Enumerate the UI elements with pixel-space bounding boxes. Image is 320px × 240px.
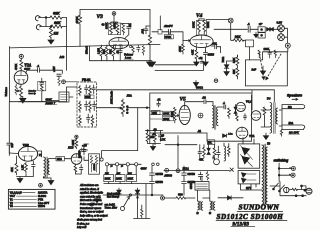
svg-text:pt: pt xyxy=(111,165,113,168)
junction dot xyxy=(177,144,179,146)
wires bridge feeds xyxy=(241,138,263,191)
resistor R50 beside box xyxy=(122,24,125,36)
grid arrow V4 xyxy=(187,40,190,42)
V5 box left edge xyxy=(149,93,151,144)
wire plug top xyxy=(302,186,307,190)
cap C25 2uF xyxy=(7,143,12,155)
cap C33 into box xyxy=(268,50,272,59)
diode D6b trem xyxy=(207,152,210,155)
wire V5 plate up xyxy=(185,102,204,106)
feedback wire vertical xyxy=(8,102,10,143)
wire lamps series xyxy=(280,24,282,34)
resistor R51 psu xyxy=(141,209,143,218)
filter cap C21 xyxy=(150,179,155,187)
svg-text:.01: .01 xyxy=(198,129,202,133)
wire leak xyxy=(182,41,184,45)
cap C17 .1 xyxy=(224,105,226,109)
switch box S1 xyxy=(59,92,69,102)
V4 cathode network wire xyxy=(196,47,205,51)
inter tube parts resistor xyxy=(236,115,238,121)
svg-text:T4: T4 xyxy=(267,96,271,100)
junction dot xyxy=(45,17,47,19)
heater pin 3 xyxy=(126,163,129,166)
choke box xyxy=(195,182,209,191)
resistor R38 cathode K1B xyxy=(74,164,77,174)
ground input xyxy=(48,39,54,45)
resistor R22 xyxy=(89,86,92,97)
AC motor cap circle xyxy=(284,187,289,192)
pin dots right xyxy=(152,163,155,166)
PT secondary xyxy=(266,147,268,205)
wire diodes to lamps xyxy=(273,28,280,31)
wire lamp down to 21K xyxy=(231,23,234,40)
wire OT left xyxy=(261,110,270,127)
cap C19 20/450 xyxy=(82,146,86,155)
footswitch logic box xyxy=(245,52,287,86)
input jack J2 xyxy=(36,25,41,30)
input jack J1 xyxy=(35,16,40,21)
resistor R36 680 xyxy=(176,197,185,200)
svg-text:470K: 470K xyxy=(14,64,18,70)
svg-text:Loop: Loop xyxy=(125,56,132,59)
svg-text:.02: .02 xyxy=(115,50,119,54)
resistor R20 tone xyxy=(41,85,44,102)
svg-text:find items): find items) xyxy=(107,195,119,198)
svg-text:4.5K: 4.5K xyxy=(192,50,195,55)
svg-text:Speakers: Speakers xyxy=(287,94,302,98)
resistor R21 xyxy=(79,86,82,97)
resistor R53 under rail xyxy=(142,46,144,55)
dashed pull line B xyxy=(267,54,281,79)
svg-text:help with a, or in output: help with a, or in output xyxy=(80,214,108,217)
wires top of R8-R10 xyxy=(102,45,121,47)
resistor box 10K xyxy=(152,110,161,114)
svg-text:.01: .01 xyxy=(157,98,161,102)
wire cap down xyxy=(8,145,10,153)
svg-text:6N4: 6N4 xyxy=(57,158,62,161)
resistor R26 xyxy=(91,115,94,126)
bias feed wire upper xyxy=(155,61,197,65)
rect diode A xyxy=(242,148,250,155)
svg-text:+.05: +.05 xyxy=(82,144,87,147)
cap C7 .1 xyxy=(38,68,40,72)
wire cap to T2 xyxy=(206,102,213,105)
speaker jack 1 xyxy=(282,105,305,109)
resistor R7 on right rail xyxy=(148,35,151,47)
pilot lamp L1 xyxy=(228,18,233,23)
svg-text:100K: 100K xyxy=(105,178,111,181)
diode D10 bias xyxy=(224,61,228,68)
AC plug xyxy=(306,188,312,194)
wire grid xyxy=(152,31,168,33)
resistor R28 xyxy=(228,108,231,118)
svg-text:RY1A: RY1A xyxy=(183,167,190,170)
heater pin 2 xyxy=(115,163,118,166)
bias diode B xyxy=(242,178,247,182)
tube V2B envelope xyxy=(18,146,37,161)
svg-text:35/40: 35/40 xyxy=(190,183,193,189)
power switch S3 xyxy=(274,183,285,191)
wire cap top xyxy=(121,23,129,25)
relay box K1 xyxy=(246,40,254,47)
svg-text:250K: 250K xyxy=(163,118,169,121)
ground screen xyxy=(150,147,155,151)
resistor R24 xyxy=(89,101,92,113)
svg-text:25/25: 25/25 xyxy=(208,54,215,57)
diode D4 xyxy=(234,111,237,114)
pin dots column xyxy=(126,106,128,108)
resistor R40 screen xyxy=(154,131,157,145)
psu bus under boxes xyxy=(104,183,152,185)
bottom wire xyxy=(19,101,47,103)
resistor R13 470K box xyxy=(164,35,173,39)
resistor R41 grid leak V4 xyxy=(182,44,185,54)
resistor R18 470K xyxy=(20,60,23,71)
svg-text:transformer specs: transformer specs xyxy=(80,207,102,210)
svg-text:1.2M: 1.2M xyxy=(172,112,174,117)
tube V6B internals xyxy=(253,114,260,118)
heater lamp PL2 xyxy=(278,34,285,41)
ground above rail xyxy=(193,81,198,87)
opto arrows xyxy=(213,157,215,160)
resistor R52 under rail xyxy=(132,46,134,54)
wire cap to block xyxy=(250,28,258,30)
wire to node xyxy=(62,26,67,28)
svg-text:can build.: can build. xyxy=(105,205,116,207)
resistor box 250K xyxy=(163,116,174,120)
wire diodes xyxy=(235,105,237,116)
resistor R11 100K xyxy=(198,20,201,34)
wire V3 left vertical xyxy=(79,10,81,16)
svg-text:SUNDOWN: SUNDOWN xyxy=(239,203,280,212)
svg-text:.001: .001 xyxy=(212,43,217,46)
resistor R6 140K xyxy=(116,23,119,35)
svg-text:rated in ohms. It: rated in ohms. It xyxy=(80,188,99,191)
junction dot xyxy=(146,107,148,109)
T1 primary xyxy=(44,157,46,177)
plug prongs xyxy=(308,190,311,192)
tube V7A internals xyxy=(238,127,246,135)
cap C11 xyxy=(92,85,95,94)
tone module dashed box xyxy=(77,82,97,127)
wire V4 plate top xyxy=(199,19,204,21)
filter cap C22 xyxy=(182,169,187,179)
diode D1 xyxy=(267,28,270,31)
svg-text:680: 680 xyxy=(178,192,183,196)
svg-text:hdg coil: hdg coil xyxy=(77,226,87,229)
terminal block lower xyxy=(258,33,265,38)
wires into reverb boxes xyxy=(150,111,162,119)
terminal block upper xyxy=(258,27,265,32)
diode D8 on box bottom xyxy=(223,134,227,137)
T2 core b xyxy=(212,201,213,210)
svg-text:1M: 1M xyxy=(54,32,59,36)
resistor box 100K xyxy=(163,111,174,115)
svg-text:30/450: 30/450 xyxy=(156,173,164,176)
wire grid xyxy=(9,152,18,155)
svg-text:1.5K: 1.5K xyxy=(21,165,24,170)
cap C16 .02 xyxy=(204,100,206,104)
AC wires xyxy=(270,182,306,196)
node circle plate supply xyxy=(112,12,116,16)
svg-text:56K: 56K xyxy=(233,69,236,74)
junction dots mains xyxy=(137,197,139,199)
resistor R14 cathode xyxy=(195,50,198,61)
tube V2A envelope xyxy=(14,71,28,85)
svg-text:68K: 68K xyxy=(54,21,61,25)
cap C35 under rail xyxy=(137,45,140,52)
tube V2A internals xyxy=(16,71,26,84)
wire node to resistor xyxy=(165,197,177,199)
dashed pull line A xyxy=(260,54,264,78)
box 6N4 xyxy=(56,157,65,161)
wire cap2 top xyxy=(146,25,150,27)
volume pot R19 xyxy=(20,84,23,97)
svg-text:.1: .1 xyxy=(37,64,40,68)
T2 winding a2 xyxy=(201,202,202,210)
trem vertical bus xyxy=(177,136,179,170)
PT T3 primary xyxy=(262,145,264,204)
svg-text:that a, use or output: that a, use or output xyxy=(80,211,104,214)
coupling cap C1 .01 xyxy=(124,24,131,39)
filter cap C23 xyxy=(182,179,187,187)
ground below output xyxy=(263,133,268,139)
ground psu mid xyxy=(94,197,99,203)
trem bottom wire xyxy=(164,170,230,172)
V2A box left edge xyxy=(9,47,11,102)
svg-text:+48V: +48V xyxy=(53,66,56,72)
PT core xyxy=(264,144,265,206)
resistor R43 in module xyxy=(90,156,92,173)
node circle FE input xyxy=(62,80,66,84)
node circle A mains xyxy=(161,196,165,200)
svg-text:100K: 100K xyxy=(116,178,122,181)
svg-text:150mA: 150mA xyxy=(86,46,89,54)
diode D7 to PT xyxy=(228,196,232,200)
wire cap to grid xyxy=(171,32,187,41)
diode D9 mains xyxy=(135,188,139,197)
dropper box 10K xyxy=(127,175,137,182)
svg-text:470K: 470K xyxy=(179,46,182,52)
resistor R9 56K xyxy=(105,47,108,61)
svg-text:drain gone wrong but: drain gone wrong but xyxy=(77,218,102,221)
resistor R8 1.5M xyxy=(100,47,103,61)
wire r51 top xyxy=(141,205,143,209)
wire resistor to choke xyxy=(186,197,195,199)
tremolo wire xyxy=(165,144,197,146)
tube K1B envelope xyxy=(71,154,82,165)
svg-text:100K: 100K xyxy=(192,22,196,28)
T2 winding b2 xyxy=(214,202,215,210)
wire grid to leak xyxy=(16,156,18,164)
V2A box right xyxy=(66,47,68,102)
footswitch jack 2 xyxy=(291,173,295,177)
wire lamps to jack xyxy=(284,28,287,43)
resistor R34 trem right xyxy=(228,147,231,157)
small box 250K xyxy=(85,95,95,99)
choke inner xyxy=(197,184,208,188)
svg-text:1.5M: 1.5M xyxy=(97,48,101,54)
T1 secondary xyxy=(48,159,50,175)
resistor R30 16ohm xyxy=(280,130,282,137)
mains bus xyxy=(103,194,163,196)
svg-text:100K: 100K xyxy=(127,178,133,181)
svg-text:117V: 117V xyxy=(246,188,252,190)
svg-text:450V: 450V xyxy=(141,166,147,170)
svg-text:300Ω: 300Ω xyxy=(196,86,204,90)
wire V3 box top xyxy=(80,9,150,11)
cap C14 xyxy=(87,114,90,123)
svg-text:3.3K: 3.3K xyxy=(233,58,236,63)
cap C32 psu extra xyxy=(198,172,202,180)
fuse F1 xyxy=(292,188,298,190)
screen filter bus xyxy=(145,130,163,132)
resistor R3 1M vertical xyxy=(49,27,52,39)
pot wiper arrow xyxy=(16,90,20,92)
svg-text:Audio T: Audio T xyxy=(45,101,56,105)
circle psu mid xyxy=(90,203,93,206)
cap C9 tone xyxy=(40,78,44,85)
diode D6a trem xyxy=(207,148,210,151)
wire box to tube xyxy=(65,158,72,160)
svg-text:8Ω SPK: 8Ω SPK xyxy=(289,130,300,134)
resistor R49 vertical xyxy=(174,108,177,123)
wire relay to fs box xyxy=(249,47,251,60)
opto neon circle xyxy=(214,159,220,165)
svg-text:Trans. filter: Trans. filter xyxy=(105,207,118,210)
svg-text:↑8°: ↑8° xyxy=(259,22,263,26)
ground V4 cathode xyxy=(194,61,199,66)
resistor R23 xyxy=(79,101,82,113)
rectifier box xyxy=(238,144,260,168)
tube V5 envelope xyxy=(179,105,190,124)
resistor R4 470K vertical xyxy=(78,15,81,24)
ground bias xyxy=(254,32,258,37)
footswitch wire vertical xyxy=(278,163,280,182)
wire droppers xyxy=(107,166,136,184)
svg-text:applied. Electrolytic: applied. Electrolytic xyxy=(80,192,104,195)
wire plate up xyxy=(26,70,38,73)
svg-text:.02: .02 xyxy=(202,96,206,100)
resistor R44 in module xyxy=(95,156,97,173)
footswitch jack 1 xyxy=(291,167,295,171)
tube V4 envelope xyxy=(190,35,213,48)
resistor R37 100K xyxy=(75,139,78,149)
bias rect box xyxy=(238,171,260,184)
tube V7A envelope xyxy=(236,127,248,139)
svg-text:100K Audio: 100K Audio xyxy=(111,90,114,104)
wire choke to T2 xyxy=(198,176,210,201)
master pot R27 xyxy=(121,99,124,117)
wire V3 box right vertical xyxy=(149,10,151,36)
small box input xyxy=(158,29,162,34)
wire jack2 to resistor xyxy=(41,26,51,28)
wire jacks vertical xyxy=(279,105,282,130)
svg-text:100K: 100K xyxy=(163,113,169,116)
cathode wire V2A xyxy=(16,84,21,86)
B+ rail xyxy=(97,89,275,91)
tube V3 envelope xyxy=(109,38,129,49)
V5 box bottom stepped xyxy=(150,133,252,141)
legend box xyxy=(8,189,55,209)
svg-text:30/450: 30/450 xyxy=(188,173,196,176)
svg-text:30/450: 30/450 xyxy=(156,181,164,184)
wire node to plate resistors xyxy=(111,15,118,23)
cap C26 plate out xyxy=(79,148,88,152)
svg-text:47K: 47K xyxy=(10,167,14,172)
svg-text:100K: 100K xyxy=(104,23,108,29)
svg-text:700Ω: 700Ω xyxy=(223,57,225,63)
ground inside box xyxy=(260,66,265,75)
diode D3 xyxy=(234,107,237,110)
wire pot bottom xyxy=(21,96,23,98)
OT secondary winding xyxy=(276,108,278,124)
wire diode xyxy=(218,197,243,199)
svg-text:A 2n: A 2n xyxy=(227,133,233,136)
junction dots screen xyxy=(147,130,148,131)
wire FE input xyxy=(65,82,77,87)
resistor R48 into box xyxy=(274,50,276,58)
svg-text:250K: 250K xyxy=(85,97,91,99)
dropper box 100K a xyxy=(104,175,114,182)
psu right verticals xyxy=(134,184,151,219)
wire heater bus xyxy=(109,163,142,165)
resistor R16 left of box xyxy=(236,57,239,65)
svg-text:33K: 33K xyxy=(109,49,113,54)
tube V6B envelope xyxy=(251,111,261,121)
tube V5 internals xyxy=(181,105,188,120)
svg-text:220K: 220K xyxy=(206,22,210,28)
resistor R31 grid leak xyxy=(15,164,18,175)
rect diode B xyxy=(242,157,250,164)
switch contact xyxy=(129,194,131,196)
svg-text:first out is marked.: first out is marked. xyxy=(80,199,102,202)
ground driver B xyxy=(48,178,54,185)
tube V3 internals xyxy=(112,38,127,49)
trem transformer core xyxy=(215,106,216,130)
wire to node xyxy=(62,17,67,19)
wire cathode bus K1B xyxy=(75,173,81,175)
wire screen bottom xyxy=(148,144,161,147)
dropper module box xyxy=(89,154,100,174)
tube V4 internals xyxy=(193,35,211,47)
svg-text:interior: interior xyxy=(29,90,37,93)
bias feed wire lower xyxy=(155,64,204,71)
OT core xyxy=(274,103,275,134)
plate resistor box V3 xyxy=(108,23,120,35)
svg-text:68K: 68K xyxy=(53,12,60,16)
wire cap right xyxy=(40,70,63,73)
pin circle N xyxy=(176,169,180,173)
resistor R42 cathode V2B xyxy=(25,163,28,174)
node circle above rail xyxy=(214,79,218,83)
bottom wire driver xyxy=(17,173,52,178)
output box top xyxy=(252,90,274,110)
wire node down right side of input xyxy=(66,18,68,47)
wire grid arrow xyxy=(177,115,179,117)
ground driver A xyxy=(17,177,23,183)
svg-text:100K: 100K xyxy=(264,49,270,51)
heater return L wire xyxy=(102,108,138,158)
cap C2 .001 xyxy=(144,26,148,34)
svg-text:tone lp: tone lp xyxy=(29,92,37,95)
svg-text:caps rated in mfd,: caps rated in mfd, xyxy=(80,195,101,198)
wire FE out xyxy=(97,107,123,109)
cap C8 .47uF xyxy=(57,74,61,79)
cap C4 .22uF xyxy=(169,29,171,34)
wire node down xyxy=(20,59,22,61)
svg-text:J2A: J2A xyxy=(127,94,132,98)
